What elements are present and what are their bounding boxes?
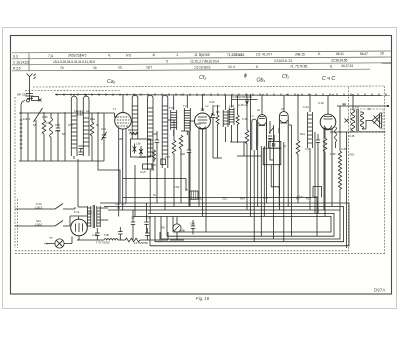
wire w3 <box>64 113 66 161</box>
R21 tall resistor <box>338 132 341 210</box>
chassis dashed inner bottom <box>15 250 349 252</box>
svg-text:13 T5/50/50: 13 T5/50/50 <box>134 241 148 245</box>
L4 bottom lead <box>134 95 136 217</box>
tube V3 envelope cylinder <box>258 115 267 146</box>
chassis dashed top <box>33 86 385 87</box>
svg-text:14. 4: 14. 4 <box>228 65 235 69</box>
L5 hatch <box>147 108 153 156</box>
main bus 2 <box>104 207 344 242</box>
bus cap C35 <box>144 203 148 233</box>
svg-text:L.9: L.9 <box>355 105 359 109</box>
svg-text:R12: R12 <box>196 122 201 126</box>
svg-text:71,32,7.5,24,: 71,32,7.5,24, <box>227 53 245 57</box>
RF grid bus <box>19 112 115 114</box>
bottom wire output <box>330 131 386 133</box>
svg-text:WF C50: WF C50 <box>17 92 27 96</box>
svg-text:16: 16 <box>93 66 97 70</box>
meter leads <box>170 217 184 241</box>
svg-text:R5: R5 <box>296 197 300 201</box>
hum cap C40 <box>191 220 195 234</box>
svg-text:S5: S5 <box>33 123 37 127</box>
transformer top connects <box>70 207 108 220</box>
wire w8 <box>274 135 279 207</box>
cap C46 <box>56 113 60 161</box>
svg-text:R 2.5: R 2.5 <box>13 66 21 70</box>
tube V2 cathode leads <box>199 128 206 232</box>
main bus 4 <box>148 214 334 237</box>
svg-text:1.06: 1.06 <box>229 104 235 108</box>
node dot j <box>286 94 287 95</box>
decoupling cap C7 <box>181 131 191 207</box>
coupling wire C9b <box>337 104 388 133</box>
svg-text:C.25: C.25 <box>349 134 355 138</box>
svg-text:R9: R9 <box>128 128 132 132</box>
node dot m <box>332 94 333 95</box>
chassis dashed left vertical <box>14 97 16 248</box>
svg-text:24,: 24, <box>295 52 299 56</box>
box cap a <box>133 144 137 154</box>
tube V3 leads <box>258 146 267 236</box>
node dot h <box>250 94 251 95</box>
svg-text:Cf₂: Cf₂ <box>282 74 289 80</box>
svg-text:T.07: T.07 <box>169 106 174 110</box>
tube V5 electrodes <box>324 117 333 130</box>
svg-text:6,: 6, <box>330 64 333 68</box>
wire w10 <box>118 239 125 241</box>
svg-text:C.17: C.17 <box>263 196 269 200</box>
svg-text:C.55: C.55 <box>92 233 98 237</box>
corner wire A <box>313 187 322 198</box>
bus left rise 2 <box>154 217 156 242</box>
node dot t <box>77 239 78 240</box>
node dot b <box>85 94 86 95</box>
svg-text:T.06: T.06 <box>104 233 109 237</box>
resistor R3 <box>172 120 176 207</box>
node dot l <box>309 94 310 95</box>
svg-text:C.41: C.41 <box>268 137 274 141</box>
svg-text:1.5.19.2)0,9: 1.5.19.2)0,9 <box>194 65 211 69</box>
main bus 1 <box>100 203 349 246</box>
tone cap C11 <box>316 134 320 214</box>
output section dashed vertical <box>348 87 350 251</box>
IF can hairpin L9 <box>252 119 257 150</box>
V5 cathode resistor wavy <box>335 127 337 148</box>
speaker cone <box>372 113 382 128</box>
L5 bottom lead <box>149 170 151 214</box>
band switch S1 <box>34 108 43 161</box>
svg-text:2K51/22/j/A 5: 2K51/22/j/A 5 <box>68 54 86 58</box>
node dot q <box>64 112 65 113</box>
svg-text:44,17,24: 44,17,24 <box>341 64 353 68</box>
input box <box>32 97 42 102</box>
det box cap <box>273 143 275 147</box>
det out wire <box>289 125 292 236</box>
wire w9 <box>314 132 316 214</box>
chassis dashed right vertical <box>384 86 386 254</box>
osc resistor R5b <box>236 95 239 143</box>
svg-text:Ca₁: Ca₁ <box>107 79 116 85</box>
node dot o <box>20 112 21 113</box>
K2 winding hatch <box>83 118 89 146</box>
V6 electrodes <box>76 217 83 232</box>
svg-text:22.36,34,55: 22.36,34,55 <box>331 58 348 62</box>
svg-text:6 7a.: 6 7a. <box>74 210 80 214</box>
svg-text:J.: J. <box>176 53 179 57</box>
bus left rise 4 <box>166 217 168 237</box>
table row R text <box>13 64 353 70</box>
R3 top link <box>168 119 174 121</box>
node dot e <box>180 94 181 95</box>
svg-text:C 16,14,5,5: C 16,14,5,5 <box>13 60 29 64</box>
small component labels <box>17 92 371 245</box>
lamp filament cross <box>56 240 62 246</box>
C25 drop <box>346 132 348 248</box>
osc coil can K1 <box>71 96 77 156</box>
svg-text:L.1: L.1 <box>250 114 254 118</box>
bus left rise 3 <box>160 217 162 240</box>
osc coil L5b hatched <box>229 95 234 142</box>
svg-text:C3.: C3. <box>131 216 135 220</box>
smoothing cap C30 <box>95 228 100 240</box>
cap C6 <box>155 131 159 203</box>
tube V5 leads <box>324 129 332 211</box>
svg-text:12.15,,2.7,46,10.20,4: 12.15,,2.7,46,10.20,4 <box>190 59 219 63</box>
svg-text:11613: 11613 <box>35 206 43 210</box>
top bus junction ticks <box>57 94 386 96</box>
node dot i <box>262 94 263 95</box>
mains switch S20 <box>15 204 75 210</box>
detector load R5 <box>245 105 249 210</box>
table ruling line 1 <box>12 51 391 53</box>
svg-text:R21: R21 <box>350 153 355 157</box>
trimmer box L6 <box>161 159 166 165</box>
wire w11 <box>140 232 168 240</box>
chassis dashed outer bottom <box>15 253 385 255</box>
RF section ground line <box>19 160 104 162</box>
small resistor R11 <box>153 150 156 162</box>
svg-text:Fig. 18: Fig. 18 <box>196 296 210 301</box>
svg-text:C ME10 9F6/10A: C ME10 9F6/10A <box>232 95 252 99</box>
output transformer core <box>357 109 358 131</box>
wire w5 <box>237 142 261 156</box>
osc coil L5a hatched <box>223 95 228 142</box>
C25 cross mark <box>345 119 349 123</box>
page border frame <box>11 36 392 295</box>
antenna <box>27 74 36 84</box>
svg-text:C.9: C.9 <box>342 102 347 106</box>
antenna lead <box>29 83 31 93</box>
svg-text:Cf₃: Cf₃ <box>199 75 206 81</box>
AF coupling cap C9 <box>277 128 279 133</box>
table row C text <box>13 58 348 64</box>
IF can L4 <box>132 95 138 139</box>
svg-text:6: 6 <box>256 65 258 69</box>
tube V2 envelope <box>195 113 211 129</box>
svg-text:J1. B)A%/5: J1. B)A%/5 <box>194 53 210 57</box>
K1 lead down <box>73 94 75 159</box>
node dot u <box>159 239 160 240</box>
chassis dashed left vertical inner <box>17 199 19 248</box>
tube V4 grid bar <box>281 115 287 117</box>
svg-text:R6: R6 <box>216 110 220 114</box>
bracket under label <box>232 98 258 100</box>
bus left rise 1 <box>149 217 151 246</box>
main bus 3 <box>108 210 340 239</box>
svg-text:11613: 11613 <box>23 117 31 121</box>
osc coil can K2 <box>83 96 89 156</box>
power transformer core <box>93 205 94 228</box>
tuning pack box <box>143 164 152 169</box>
tube V1 envelope <box>115 113 132 130</box>
ground bus <box>133 217 331 233</box>
svg-text:5/5: 5/5 <box>62 132 66 136</box>
svg-text:C.19: C.19 <box>318 101 324 105</box>
svg-text:N 5: N 5 <box>126 53 131 57</box>
tube V1 plate drop <box>122 95 124 113</box>
svg-text:C.32: C.32 <box>330 152 336 156</box>
node dot n <box>352 94 353 95</box>
svg-text:C.46: C.46 <box>242 117 248 121</box>
svg-text:R4a: R4a <box>90 117 95 121</box>
bus coupling cap <box>78 111 83 116</box>
svg-text:MB: MB <box>181 229 185 233</box>
V6 bottom lead <box>78 236 80 240</box>
resistor R1 <box>42 113 46 161</box>
svg-text:C.8: C.8 <box>150 168 155 172</box>
svg-text:R2: R2 <box>162 226 166 230</box>
L6 hatch <box>162 106 168 154</box>
svg-text:66,47: 66,47 <box>360 52 368 56</box>
grid stopper R8 <box>323 128 327 217</box>
bus cap C33 <box>131 210 135 240</box>
bias cell box <box>190 191 199 199</box>
IF can K3 <box>171 95 177 136</box>
transformer top lead <box>352 96 354 133</box>
svg-text:R11: R11 <box>198 197 203 201</box>
output transformer secondary coil <box>360 112 363 129</box>
svg-text:C53: C53 <box>55 123 60 127</box>
svg-text:C.07: C.07 <box>305 147 311 151</box>
wire end terminal <box>387 105 389 107</box>
node dot s <box>339 131 340 132</box>
power transformer winding B <box>97 206 100 227</box>
power transformer winding A <box>87 206 90 227</box>
svg-text:R9: R9 <box>314 195 318 199</box>
svg-text:T2: T2 <box>117 206 121 210</box>
svg-text:15,4-5,26,34-5,32,41,9,11,43,5: 15,4-5,26,34-5,32,41,9,11,43,5 <box>53 60 95 64</box>
antenna socket cluster <box>26 94 34 103</box>
tube V3 grid bar <box>259 117 265 119</box>
svg-text:R17: R17 <box>306 197 311 201</box>
filter resistor R10 <box>125 238 140 242</box>
svg-text:C13: C13 <box>101 127 106 131</box>
K1 winding hatch <box>71 116 77 148</box>
box cap b <box>139 146 143 156</box>
svg-text:T.2: T.2 <box>183 104 187 108</box>
svg-text:R1a: R1a <box>300 132 305 136</box>
svg-text:6.: 6. <box>318 52 321 56</box>
svg-text:C.45 me: C.45 me <box>238 103 248 107</box>
resistor R2a <box>90 113 94 161</box>
smoothing cap C31 <box>118 227 123 240</box>
tube V5 plate drop <box>327 95 329 114</box>
node dot d <box>134 94 135 95</box>
K2 top lead <box>85 94 87 96</box>
speaker cone cross <box>374 116 381 124</box>
speaker dashed box <box>351 109 384 132</box>
tube V4 inner anode ring <box>280 120 287 123</box>
svg-text:C26: C26 <box>151 163 156 167</box>
svg-text:C53: C53 <box>55 129 60 133</box>
svg-text:D97A: D97A <box>374 288 385 293</box>
choke CH1 <box>104 239 118 241</box>
svg-text:C ч C: C ч C <box>322 76 335 82</box>
svg-text:4.1: 4.1 <box>44 242 48 246</box>
V2 anode arrow <box>210 113 214 120</box>
svg-text:18: 18 <box>380 52 384 56</box>
osc resistor R5a <box>213 105 222 158</box>
tube V3 plate drop <box>261 95 263 114</box>
L9 lead <box>253 150 255 242</box>
HT filter wire <box>78 239 104 241</box>
top HT bus wire <box>55 95 390 96</box>
svg-text:7b: 7b <box>60 66 64 70</box>
node dot r <box>97 112 98 113</box>
svg-text:5: 5 <box>166 60 168 64</box>
node dot c <box>122 94 123 95</box>
table ruling line 2 <box>12 57 391 59</box>
IF can L5 <box>147 95 153 170</box>
svg-text:C.08: C.08 <box>341 147 347 151</box>
svg-text:C35: C35 <box>146 216 151 220</box>
tube V1 cathode leads <box>119 128 126 217</box>
svg-text:Wb: Wb <box>119 137 124 141</box>
inter-tube wire a <box>268 121 274 239</box>
svg-text:Ob₁: Ob₁ <box>257 78 266 84</box>
det box small <box>269 141 281 148</box>
svg-text:L3b: L3b <box>136 142 141 146</box>
svg-text:R14: R14 <box>240 197 245 201</box>
svg-text:Ca5: Ca5 <box>180 152 185 156</box>
table left column divider <box>28 53 30 71</box>
wire w4 feed down <box>98 113 120 203</box>
AF choke L8 hatched <box>308 96 313 210</box>
osc bottom connector <box>230 141 247 143</box>
svg-text:C 96: C 96 <box>42 115 48 119</box>
svg-text:S 3: S 3 <box>13 54 18 58</box>
tube V4 leads <box>279 142 288 242</box>
phi feed drop <box>246 95 249 104</box>
svg-text:C40: C40 <box>190 222 195 226</box>
meter needle <box>175 226 180 231</box>
L6 bottom lead <box>164 168 166 210</box>
L4 hatch <box>132 106 138 134</box>
IF strip box top wire <box>123 179 186 192</box>
svg-text:Ca15: Ca15 <box>139 155 146 159</box>
svg-text:10,: 10, <box>118 66 122 70</box>
table ruling line 4 <box>12 69 370 71</box>
node dot g <box>246 94 247 95</box>
table ruling line 3 <box>12 63 391 65</box>
svg-text:2.5: 2.5 <box>256 53 261 57</box>
tube V3 inner anode ring <box>259 123 266 126</box>
inter-tube arrow <box>269 128 274 134</box>
table row S text <box>13 52 384 59</box>
tube V4 plate drop <box>283 95 285 112</box>
padder caps C49 C48 <box>79 146 84 154</box>
rectifier V6 envelope <box>71 219 88 236</box>
aerial coil w1 <box>20 113 23 161</box>
IF can L6 <box>162 95 168 168</box>
svg-text:7.81: 7.81 <box>174 185 180 189</box>
AVC return wire <box>123 197 317 236</box>
IF can K4 <box>184 95 190 135</box>
output transformer primary coil <box>351 110 354 131</box>
svg-text:7,)1: 7,)1 <box>48 54 54 58</box>
tube V2 plate drop <box>202 95 204 110</box>
lamp leads <box>46 237 72 244</box>
tube V2 grid cap <box>201 109 204 111</box>
chassis dashed top inner <box>25 90 120 92</box>
svg-text:T.75 T.0015: T.75 T.0015 <box>96 241 110 245</box>
tuning coil L2 <box>50 113 53 161</box>
svg-text:1'16: 1'16 <box>46 121 51 125</box>
node dot f <box>202 94 203 95</box>
svg-text:4;: 4; <box>108 54 111 58</box>
tube V5 envelope <box>320 114 336 130</box>
bus left rise 5 <box>172 217 174 233</box>
trimmer C53 <box>102 113 107 161</box>
meter MB circle <box>173 224 181 232</box>
svg-text:2,21/21.6. 23,: 2,21/21.6. 23, <box>274 59 293 63</box>
det box outline 2 <box>263 148 281 165</box>
node dot k <box>297 94 298 95</box>
wire w2 <box>27 113 29 161</box>
node dot a <box>73 94 74 95</box>
speaker leads <box>360 112 372 129</box>
tube V1 grid electrodes <box>117 117 129 126</box>
svg-text:66 41: 66 41 <box>336 52 344 56</box>
grid cap C09 <box>211 105 215 158</box>
V2 grid side wire <box>190 121 195 207</box>
wire w7 <box>271 165 279 195</box>
resistor R9 horizontal <box>130 132 138 134</box>
svg-text:Cu.5: Cu.5 <box>140 170 146 174</box>
svg-text:71. 75,76 85.: 71. 75,76 85. <box>290 65 308 69</box>
svg-text:C.44: C.44 <box>303 105 309 109</box>
left section top lead <box>21 101 25 114</box>
svg-text:ϕ: ϕ <box>244 73 247 79</box>
tube V4 envelope cylinder <box>279 112 288 142</box>
AF box under V1 <box>130 139 150 157</box>
svg-text:,8.: ,8. <box>152 53 156 57</box>
V1 grid connect <box>115 113 118 117</box>
svg-text:11610: 11610 <box>35 223 43 227</box>
svg-text:4.16: 4.16 <box>87 211 93 215</box>
grid leak R6 <box>296 95 300 203</box>
svg-text:C51: C51 <box>68 123 73 127</box>
svg-text:41 24 7: 41 24 7 <box>262 53 273 57</box>
smoothing cap C32 <box>145 228 150 240</box>
wire w6 <box>250 95 252 216</box>
power feed wire x78 <box>77 159 79 207</box>
svg-text:C21: C21 <box>222 197 227 201</box>
svg-text:C26: C26 <box>152 132 157 136</box>
pilot lamp LP1 <box>55 239 64 248</box>
node dot p <box>43 112 44 113</box>
screen dropper R4 <box>179 135 183 203</box>
mains switch S21 <box>15 216 70 226</box>
